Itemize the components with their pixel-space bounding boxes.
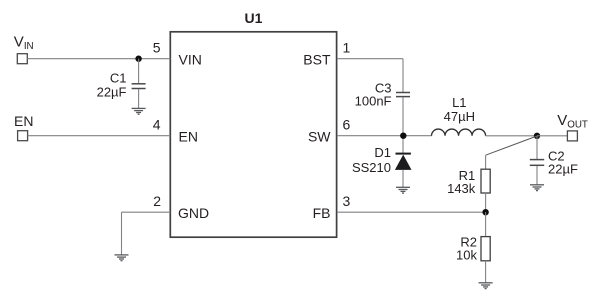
capacitor C3: [355, 80, 410, 108]
pin 5 label VIN: [153, 40, 202, 68]
wire R1 bottom to FB node: [485, 193, 487, 212]
wire VOUT node diagonal to R1: [486, 136, 537, 155]
svg-text:D1: D1: [374, 145, 391, 160]
svg-text:EN: EN: [179, 129, 198, 145]
svg-text:C1: C1: [110, 71, 127, 86]
svg-text:U1: U1: [245, 10, 263, 26]
wire C2 top stub: [536, 136, 538, 159]
svg-text:22µF: 22µF: [548, 162, 578, 177]
svg-text:3: 3: [343, 193, 351, 209]
ground below C1: [132, 108, 146, 114]
svg-text:5: 5: [153, 40, 161, 56]
pin 1 label BST: [303, 40, 350, 68]
wire R1 top stub: [485, 155, 487, 169]
wire pin 6 SW to L1: [337, 135, 432, 137]
ground below C2: [530, 185, 544, 191]
svg-text:4: 4: [153, 117, 161, 133]
wire EN terminal to pin 4: [28, 135, 171, 137]
node VIN/C1 junction: [135, 56, 141, 62]
terminal VOUT: [557, 112, 588, 141]
terminal EN: [14, 113, 33, 141]
svg-text:6: 6: [343, 117, 351, 133]
svg-text:100nF: 100nF: [355, 94, 392, 109]
wire pin 1 BST to C3: [337, 59, 403, 92]
svg-text:47µH: 47µH: [444, 109, 475, 124]
svg-text:L1: L1: [452, 95, 466, 110]
svg-text:143k: 143k: [447, 181, 476, 196]
pin 4 label EN: [153, 117, 198, 145]
wire C3 to SW node and diode: [402, 97, 404, 153]
node VOUT junction: [534, 133, 540, 139]
svg-text:EN: EN: [14, 113, 33, 129]
ground below pin 2: [115, 255, 129, 261]
svg-text:FB: FB: [313, 205, 331, 221]
ground below R2: [479, 283, 493, 289]
node FB junction: [482, 209, 488, 215]
resistor R1: [447, 168, 490, 196]
svg-text:SW: SW: [308, 129, 331, 145]
wire C1 top stub: [138, 59, 140, 83]
wire C2 bottom stub: [536, 166, 538, 185]
inductor L1: [432, 95, 486, 136]
svg-text:GND: GND: [178, 205, 209, 221]
wire R2 bottom to ground: [485, 261, 487, 283]
wire pin 3 FB to divider: [337, 211, 486, 213]
capacitor C2: [530, 148, 578, 176]
svg-text:10k: 10k: [456, 248, 477, 263]
capacitor C1: [97, 71, 146, 100]
svg-text:BST: BST: [303, 52, 331, 68]
svg-text:2: 2: [153, 193, 161, 209]
svg-text:22µF: 22µF: [97, 85, 127, 100]
pin 3 label FB: [313, 193, 351, 221]
wire pin 2 GND to ground: [122, 212, 171, 255]
terminal VIN: [14, 33, 34, 63]
node SW junction: [400, 133, 406, 139]
ground below D1: [396, 187, 410, 193]
pin 2 label GND: [153, 193, 209, 221]
op-amp U1: [170, 10, 336, 237]
wire C1 bottom stub: [138, 89, 140, 108]
wire VIN terminal to pin 5: [27, 58, 170, 60]
diode D1 SS210: [352, 145, 412, 175]
wire VOUT node to terminal: [537, 135, 567, 137]
svg-text:VIN: VIN: [179, 52, 202, 68]
wire D1 anode to ground: [402, 170, 404, 187]
resistor R2: [456, 234, 490, 262]
svg-text:SS210: SS210: [352, 160, 391, 175]
wire L1 to VOUT node: [486, 135, 537, 137]
svg-text:1: 1: [343, 40, 351, 56]
wire R2 top stub: [485, 212, 487, 236]
pin 6 label SW: [308, 117, 351, 145]
